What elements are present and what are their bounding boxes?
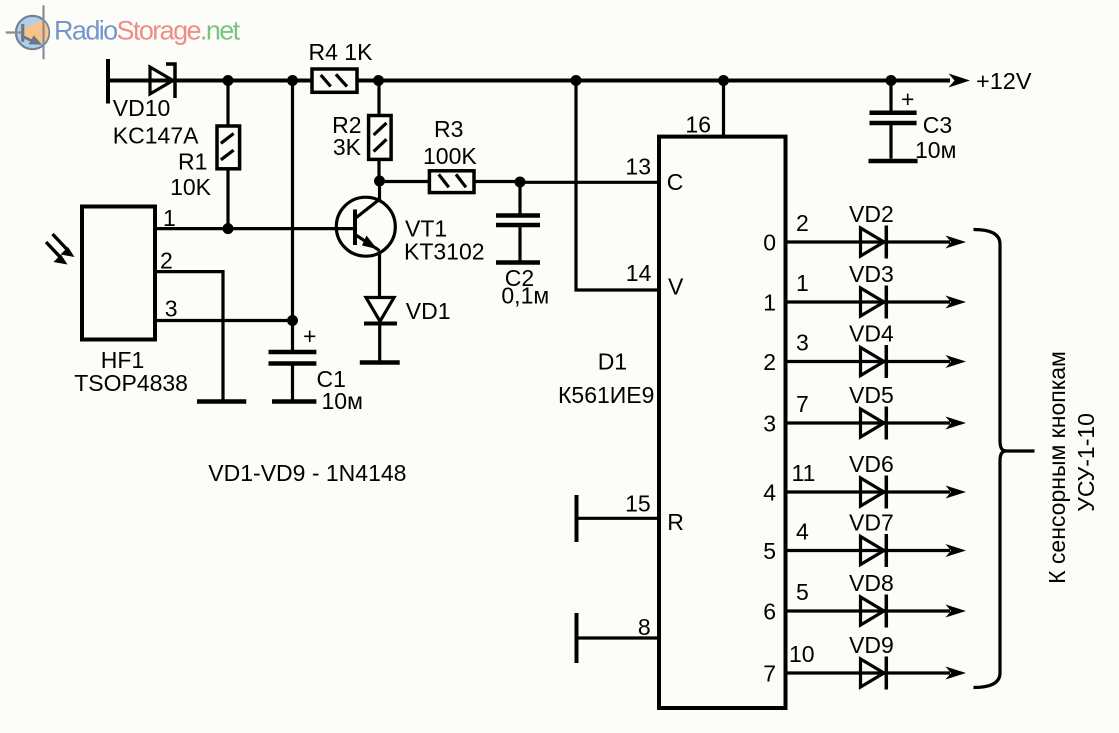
- svg-text:14: 14: [626, 260, 652, 286]
- svg-text:11: 11: [792, 460, 816, 486]
- svg-text:13: 13: [625, 154, 651, 180]
- svg-text:VD5: VD5: [849, 382, 894, 408]
- wire HF1 pin 1 to VT1 base: [155, 227, 353, 230]
- svg-text:R4 1K: R4 1K: [309, 39, 374, 65]
- svg-text:6: 6: [763, 599, 776, 625]
- diode VD8: [861, 595, 887, 628]
- svg-text:KC147A: KC147A: [113, 123, 199, 149]
- diode VD7: [861, 534, 887, 567]
- +12V power rail wire: [108, 79, 950, 83]
- svg-text:10м: 10м: [915, 137, 956, 163]
- svg-text:R: R: [667, 509, 684, 535]
- ground C3: [869, 159, 918, 164]
- diode VD5: [861, 407, 887, 440]
- svg-text:C3: C3: [923, 112, 952, 138]
- capacitor C3: [870, 81, 917, 159]
- svg-text:+: +: [303, 323, 316, 349]
- RadioStorage.net logo: [6, 5, 241, 59]
- wire output 3 (pin 7): [786, 421, 951, 424]
- wire R1 branch: [226, 81, 229, 229]
- terminal pin 8: [575, 613, 579, 663]
- svg-text:8: 8: [638, 614, 651, 640]
- svg-text:10м: 10м: [322, 388, 363, 414]
- svg-text:VD8: VD8: [849, 570, 894, 596]
- arrow output 6: [946, 605, 967, 618]
- junction dot rail/R1: [223, 75, 234, 86]
- wire output 2 (pin 3): [786, 360, 951, 363]
- svg-text:KT3102: KT3102: [404, 239, 485, 265]
- junction dot rail/C3: [886, 75, 897, 86]
- junction dot C1 node: [287, 315, 298, 326]
- zener diode VD10: [150, 64, 175, 98]
- diode VD2: [861, 226, 887, 259]
- IC D1 K561IE9: [659, 137, 786, 708]
- wire pin 14 branch: [576, 81, 659, 291]
- IR receiver HF1 box: [82, 207, 155, 340]
- svg-text:VD1: VD1: [406, 298, 451, 324]
- svg-text:2: 2: [763, 349, 776, 375]
- junction dot rail/pin16: [718, 75, 729, 86]
- svg-text:+12V: +12V: [976, 68, 1032, 94]
- capacitor C2: [496, 182, 540, 261]
- diode VD6: [861, 476, 887, 509]
- wire output 7 (pin 10): [786, 671, 951, 674]
- wire pin 8: [577, 636, 660, 639]
- resistor R1: [217, 126, 240, 169]
- svg-text:V: V: [668, 274, 684, 300]
- diode VD1: [364, 298, 397, 361]
- arrow output 0: [946, 236, 967, 249]
- diode VD4: [861, 345, 887, 378]
- wire output 6 (pin 5): [786, 609, 951, 612]
- svg-text:16: 16: [685, 112, 711, 138]
- wire collector node to R3: [380, 180, 430, 183]
- arrow output 4: [946, 486, 967, 499]
- svg-text:C: C: [667, 169, 684, 195]
- junction dot pin1/R1: [223, 223, 234, 234]
- svg-text:VD6: VD6: [849, 451, 894, 477]
- diode VD3: [861, 286, 887, 319]
- arrow output 1: [946, 296, 967, 309]
- svg-text:2: 2: [796, 210, 809, 236]
- svg-text:УСУ-1-10: УСУ-1-10: [1073, 413, 1099, 512]
- brace to sensor buttons: [974, 230, 1035, 688]
- diode VD9: [861, 657, 887, 690]
- wire R2 branch: [377, 81, 380, 182]
- resistor R2: [369, 116, 392, 160]
- svg-text:10K: 10K: [170, 174, 212, 200]
- svg-text:3K: 3K: [333, 134, 362, 160]
- svg-text:VD4: VD4: [849, 321, 894, 347]
- svg-text:VD2: VD2: [849, 201, 894, 227]
- svg-text:VD3: VD3: [849, 261, 894, 287]
- svg-text:1: 1: [763, 290, 776, 316]
- svg-text:2: 2: [160, 248, 173, 274]
- svg-text:100K: 100K: [423, 143, 477, 169]
- svg-text:RadioStorage.net: RadioStorage.net: [54, 16, 241, 46]
- ground C1: [272, 399, 316, 404]
- svg-text:К561ИЕ9: К561ИЕ9: [558, 382, 654, 408]
- svg-text:R1: R1: [178, 149, 207, 175]
- svg-text:+: +: [901, 86, 914, 112]
- svg-text:VD9: VD9: [849, 632, 894, 658]
- svg-text:5: 5: [796, 579, 809, 605]
- transistor VT1: [336, 181, 395, 298]
- resistor R4: [312, 69, 357, 92]
- wire HF1 pin 3 to C1 node: [155, 319, 293, 322]
- junction dot C2 node: [515, 177, 526, 188]
- arrow output 2: [946, 355, 967, 368]
- resistor R3: [429, 171, 474, 193]
- svg-text:D1: D1: [598, 349, 627, 375]
- arrow output 5: [946, 544, 967, 557]
- junction dot rail/pin14 branch: [571, 75, 582, 86]
- wire C1 branch from rail: [291, 81, 294, 321]
- svg-text:VD7: VD7: [849, 510, 894, 536]
- wire pin 16: [722, 81, 725, 137]
- wire output 0 (pin 2): [786, 240, 951, 243]
- svg-text:VD1-VD9 - 1N4148: VD1-VD9 - 1N4148: [208, 460, 406, 486]
- wire R3 to C2 node: [474, 180, 520, 183]
- ground VD1: [360, 360, 400, 365]
- wire output 5 (pin 4): [786, 549, 951, 552]
- svg-text:TSOP4838: TSOP4838: [74, 370, 188, 396]
- ground C2: [496, 260, 540, 265]
- wire HF1 pin 2 to ground: [155, 272, 223, 400]
- svg-text:R3: R3: [434, 116, 463, 142]
- svg-text:4: 4: [763, 480, 776, 506]
- wire pin 15: [577, 517, 660, 520]
- arrow output 7: [946, 667, 967, 680]
- svg-text:4: 4: [796, 519, 809, 545]
- wire output 1 (pin 1): [786, 300, 951, 303]
- svg-text:15: 15: [625, 491, 651, 517]
- svg-text:5: 5: [763, 538, 776, 564]
- svg-text:1: 1: [796, 270, 809, 296]
- svg-text:3: 3: [763, 411, 776, 437]
- IR arrows: [46, 234, 75, 265]
- wire C2 node to pin 13: [520, 181, 659, 184]
- svg-text:3: 3: [165, 296, 178, 322]
- junction dot rail/C1 branch: [287, 75, 298, 86]
- svg-text:7: 7: [796, 391, 809, 417]
- svg-text:VD10: VD10: [113, 95, 171, 121]
- +12V arrow: [949, 74, 971, 88]
- terminal pin 15: [575, 495, 579, 542]
- left supply terminal: [106, 59, 110, 104]
- svg-text:3: 3: [796, 330, 809, 356]
- capacitor C1: [269, 321, 317, 400]
- junction dot collector node: [374, 176, 385, 187]
- svg-text:К сенсорным кнопкам: К сенсорным кнопкам: [1044, 351, 1070, 584]
- ground pin 2: [197, 399, 246, 404]
- svg-text:7: 7: [763, 661, 776, 687]
- svg-text:0: 0: [763, 230, 776, 256]
- svg-text:0,1м: 0,1м: [501, 283, 549, 309]
- wire output 4 (pin 11): [786, 490, 951, 493]
- junction dot rail/R2: [373, 75, 384, 86]
- svg-text:10: 10: [789, 641, 815, 667]
- arrow output 3: [946, 417, 967, 430]
